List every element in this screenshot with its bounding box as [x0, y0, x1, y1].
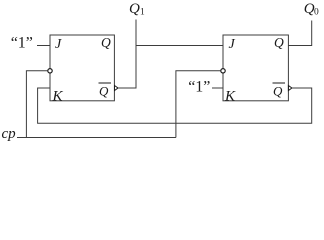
overline of Qbar (FF1): [99, 82, 112, 84]
output arrow at Qbar (FF2): [288, 86, 292, 91]
wire Q (FF2) to Q0 terminal: [288, 21, 311, 46]
clock bubble (FF1): [48, 69, 52, 73]
svg-text:“1”: “1”: [188, 79, 210, 96]
svg-text:Q: Q: [274, 35, 284, 50]
svg-text:“1”: “1”: [11, 35, 33, 52]
wire cp bus: [17, 137, 176, 139]
svg-text:J: J: [55, 37, 62, 52]
svg-text:0: 0: [314, 7, 319, 17]
wire Qbar (FF2) feedback to K (FF1): [38, 88, 312, 123]
flip-flop FF2 box: [223, 35, 288, 101]
svg-text:K: K: [52, 88, 64, 104]
overline of Qbar (FF2): [273, 82, 286, 84]
clock bubble (FF2): [221, 69, 225, 73]
wire "1" to K (FF2): [212, 87, 223, 89]
svg-text:Q: Q: [129, 1, 140, 17]
svg-text:cp: cp: [2, 126, 17, 142]
svg-text:Q: Q: [99, 84, 109, 99]
wire Qbar (FF1) to Q1 terminal: [118, 20, 136, 89]
wire cp to clock (FF2): [176, 71, 221, 138]
svg-text:K: K: [224, 88, 236, 104]
svg-text:Q: Q: [101, 35, 111, 50]
svg-text:J: J: [229, 37, 236, 52]
wire Q1 node to J (FF2): [136, 45, 223, 47]
flip-flop FF1 box: [50, 35, 114, 101]
svg-text:Q: Q: [273, 84, 283, 99]
wire "1" to J (FF1): [37, 45, 50, 47]
wire cp to clock (FF1): [26, 71, 47, 138]
svg-text:1: 1: [140, 7, 145, 17]
output arrow at Qbar (FF1): [115, 86, 119, 91]
